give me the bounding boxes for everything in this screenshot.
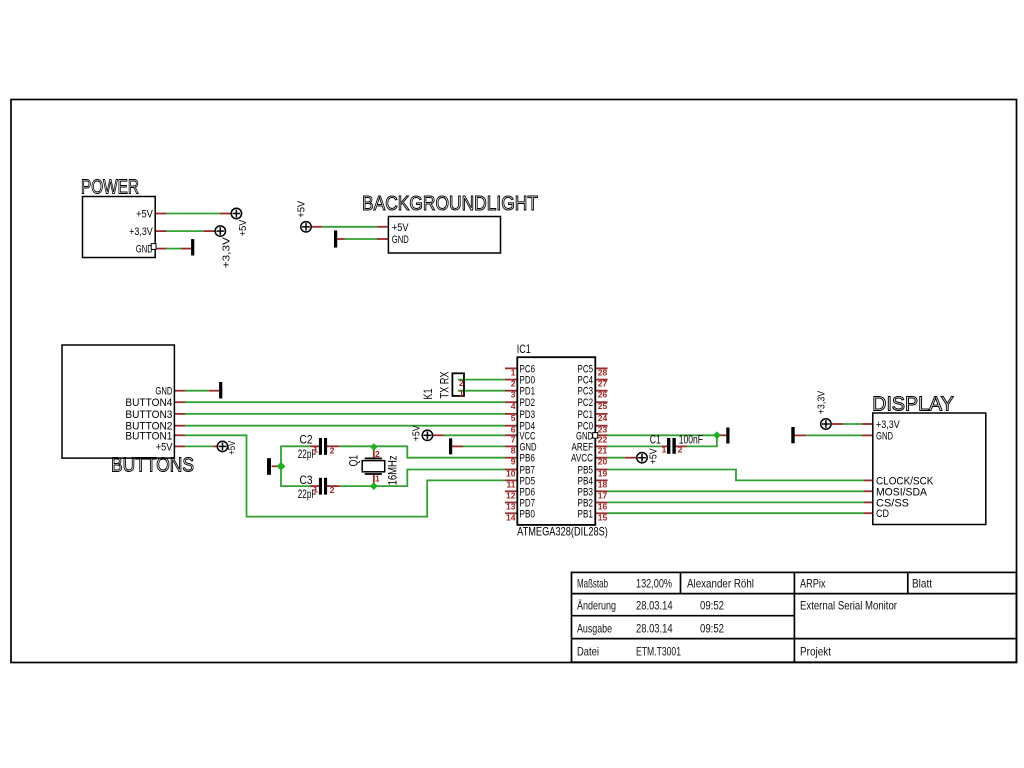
svg-text:GND: GND xyxy=(392,234,409,246)
svg-text:28.03.14: 28.03.14 xyxy=(636,622,673,636)
svg-text:GND: GND xyxy=(136,244,153,256)
svg-text:2: 2 xyxy=(330,445,335,455)
svg-text:24: 24 xyxy=(598,413,608,423)
svg-text:PC1: PC1 xyxy=(578,409,594,421)
svg-text:1: 1 xyxy=(313,445,318,455)
svg-text:+5V: +5V xyxy=(411,425,423,441)
svg-text:PD1: PD1 xyxy=(520,386,536,398)
svg-text:132,00%: 132,00% xyxy=(636,577,672,591)
svg-text:+5V: +5V xyxy=(392,222,409,234)
svg-text:5: 5 xyxy=(511,413,516,423)
svg-text:PC5: PC5 xyxy=(578,363,594,375)
svg-text:28.03.14: 28.03.14 xyxy=(636,599,673,613)
svg-text:+5V: +5V xyxy=(136,209,153,221)
svg-text:Maßstab: Maßstab xyxy=(577,577,608,591)
svg-text:BUTTON4: BUTTON4 xyxy=(125,397,172,409)
svg-text:Alexander Röhl: Alexander Röhl xyxy=(687,577,754,591)
svg-text:C1: C1 xyxy=(650,432,661,446)
svg-text:+5V: +5V xyxy=(648,448,660,464)
svg-text:4: 4 xyxy=(511,401,516,411)
svg-text:1: 1 xyxy=(375,473,380,483)
svg-text:CD: CD xyxy=(876,508,889,520)
svg-text:15: 15 xyxy=(598,512,608,522)
svg-text:PB0: PB0 xyxy=(520,508,536,520)
svg-text:PC3: PC3 xyxy=(578,386,594,398)
svg-text:BUTTONS: BUTTONS xyxy=(111,455,194,477)
svg-text:GND: GND xyxy=(520,441,537,453)
svg-text:9: 9 xyxy=(511,457,516,467)
svg-text:26: 26 xyxy=(598,390,608,400)
svg-text:K1: K1 xyxy=(421,388,435,399)
svg-text:Änderung: Änderung xyxy=(577,599,616,613)
svg-text:+5V: +5V xyxy=(296,201,308,218)
svg-text:+3,3V: +3,3V xyxy=(129,226,153,238)
svg-text:PC6: PC6 xyxy=(520,363,536,375)
svg-text:1: 1 xyxy=(662,444,667,454)
svg-text:PC2: PC2 xyxy=(578,397,594,409)
svg-text:PD6: PD6 xyxy=(520,486,536,498)
svg-text:1: 1 xyxy=(313,484,318,494)
svg-text:20: 20 xyxy=(598,457,608,467)
svg-text:10: 10 xyxy=(506,469,516,479)
svg-text:21: 21 xyxy=(598,445,608,455)
svg-text:13: 13 xyxy=(506,502,516,512)
svg-text:25: 25 xyxy=(598,401,608,411)
svg-text:17: 17 xyxy=(598,490,608,500)
svg-text:+5V: +5V xyxy=(226,441,238,455)
svg-text:2: 2 xyxy=(330,485,335,495)
svg-text:14: 14 xyxy=(506,512,516,522)
svg-text:2: 2 xyxy=(678,444,683,454)
svg-text:+5V: +5V xyxy=(156,441,173,453)
svg-text:GND: GND xyxy=(155,386,172,398)
svg-text:BACKGROUNDLIGHT: BACKGROUNDLIGHT xyxy=(362,193,538,215)
svg-text:7: 7 xyxy=(511,434,516,444)
svg-text:+5V: +5V xyxy=(237,220,249,237)
svg-text:6: 6 xyxy=(511,425,516,435)
svg-text:+3,3V: +3,3V xyxy=(816,391,828,415)
svg-text:TX RX: TX RX xyxy=(438,372,452,399)
svg-text:1: 1 xyxy=(511,367,516,377)
svg-text:18: 18 xyxy=(598,479,608,489)
svg-text:09:52: 09:52 xyxy=(700,599,724,613)
svg-text:1: 1 xyxy=(459,388,464,398)
svg-text:27: 27 xyxy=(598,379,608,389)
svg-text:PB1: PB1 xyxy=(578,508,594,520)
svg-text:Datei: Datei xyxy=(577,645,599,659)
svg-text:POWER: POWER xyxy=(81,177,139,199)
svg-text:11: 11 xyxy=(507,479,516,489)
svg-text:2: 2 xyxy=(459,378,464,388)
svg-text:09:52: 09:52 xyxy=(700,622,724,636)
svg-text:+3,3V: +3,3V xyxy=(876,419,900,431)
svg-text:AREF: AREF xyxy=(572,441,594,453)
svg-text:28: 28 xyxy=(598,367,608,377)
svg-text:BUTTON3: BUTTON3 xyxy=(125,409,172,421)
svg-text:ATMEGA328(DIL28S): ATMEGA328(DIL28S) xyxy=(517,524,608,538)
svg-text:Q1: Q1 xyxy=(347,455,361,467)
svg-text:Blatt: Blatt xyxy=(912,577,933,591)
svg-text:16: 16 xyxy=(598,502,608,512)
svg-text:8: 8 xyxy=(511,445,516,455)
svg-text:Ausgabe: Ausgabe xyxy=(577,622,612,636)
svg-text:19: 19 xyxy=(598,469,608,479)
svg-text:DISPLAY: DISPLAY xyxy=(872,394,954,416)
svg-text:GND: GND xyxy=(876,430,893,442)
svg-text:PB3: PB3 xyxy=(578,486,594,498)
svg-text:PB6: PB6 xyxy=(520,453,536,465)
svg-text:ETM.T3001: ETM.T3001 xyxy=(636,645,681,659)
svg-text:IC1: IC1 xyxy=(517,342,531,356)
svg-text:PD3: PD3 xyxy=(520,409,536,421)
svg-text:2: 2 xyxy=(511,379,516,389)
svg-text:12: 12 xyxy=(506,490,516,500)
svg-text:C2: C2 xyxy=(300,433,313,447)
svg-text:100nF: 100nF xyxy=(679,432,703,446)
svg-text:Projekt: Projekt xyxy=(800,645,832,659)
svg-text:3: 3 xyxy=(511,390,516,400)
svg-text:2: 2 xyxy=(375,449,380,459)
svg-text:External Serial Monitor: External Serial Monitor xyxy=(800,599,897,613)
svg-text:22: 22 xyxy=(598,434,608,444)
svg-text:C3: C3 xyxy=(300,473,313,487)
svg-text:AVCC: AVCC xyxy=(571,453,593,465)
svg-text:16MHz: 16MHz xyxy=(386,455,400,485)
svg-text:+3,3V: +3,3V xyxy=(221,237,233,268)
svg-text:23: 23 xyxy=(598,425,608,435)
svg-text:PD2: PD2 xyxy=(520,397,536,409)
svg-text:ARPix: ARPix xyxy=(800,577,826,591)
